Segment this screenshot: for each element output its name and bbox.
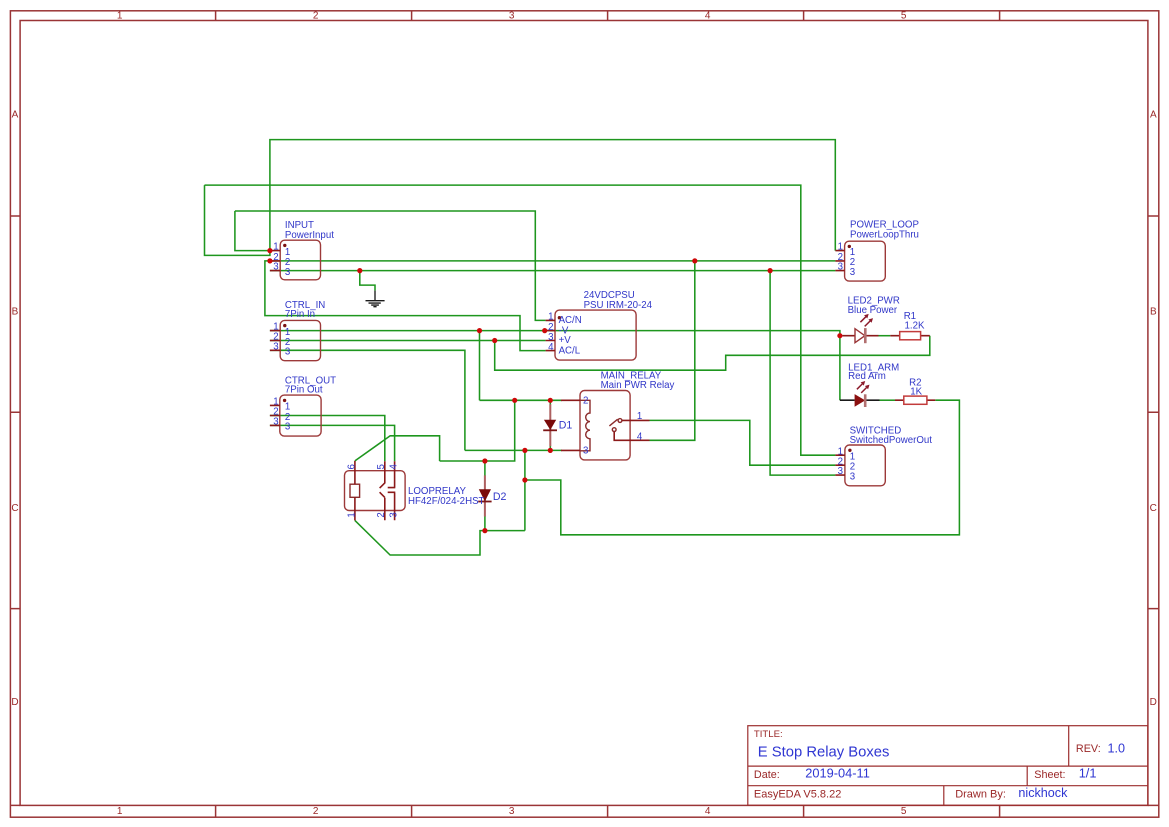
svg-text:5: 5 [901,11,907,22]
wire CTRL_IN pin3 down to MAIN_RELAY pin3 row [270,350,465,450]
svg-text:3: 3 [285,267,290,278]
pin 4 lead [614,432,649,441]
svg-text:1: 1 [117,11,123,22]
relay MAIN_RELAY (Main PWR Relay) [561,391,650,460]
svg-text:E Stop Relay Boxes: E Stop Relay Boxes [758,745,890,761]
svg-text:nickhock: nickhock [1018,786,1068,800]
junction relay pin3 row [522,448,527,453]
resistor R1 [890,332,930,340]
svg-text:7Pin Out: 7Pin Out [285,384,323,395]
svg-text:AC/L: AC/L [559,345,581,356]
LED2_PWR (Blue Power) [843,314,879,343]
wire D1 green stubs [549,400,551,450]
wire D2 top green segments [484,461,486,531]
diode D1 [543,404,557,446]
svg-text:D2: D2 [493,491,507,503]
connector POWER_LOOP (PowerLoopThru) [835,241,885,281]
svg-text:D: D [1150,697,1157,708]
svg-text:Blue Power: Blue Power [848,305,898,316]
svg-text:PowerLoopThru: PowerLoopThru [850,230,919,241]
wire ground tap [360,271,375,291]
wire MAIN_RELAY pin2 row [480,399,563,401]
LED1_ARM (Red Arm) [840,381,880,407]
wire D2 bottom row [485,530,525,532]
svg-text:3: 3 [838,466,843,477]
pin 1 stub / coil lead [354,497,356,520]
TITLEBLOCK [748,726,1148,806]
junction relay pin2 row at D2 net [512,398,517,403]
svg-text:SwitchedPowerOut: SwitchedPowerOut [850,435,933,446]
pin 1 lead [622,419,650,421]
power supply 24VDCPSU (PSU IRM-20-24) [546,310,637,360]
wire LED2 junction down to LED1 anode corner [839,336,841,401]
connector SWITCHED (SwitchedPowerOut) [835,445,885,486]
pin numbers LOOPRELAY (rotated) [346,464,399,518]
column labels bottom [117,806,907,817]
svg-text:1/1: 1/1 [1079,766,1097,781]
svg-text:Drawn By:: Drawn By: [955,789,1006,801]
junction D2 bottom [482,528,487,533]
wire INPUT pin1 left jog down [205,185,270,255]
pin 5 contact [380,461,385,488]
connector INPUT (PowerInput) [270,240,321,280]
svg-text:4: 4 [548,342,554,353]
wire POWER_LOOP pin2 net down to MAIN_RELAY pin4 [650,261,695,440]
connector CTRL_OUT (7Pin Out) [270,395,321,436]
wire R2 return loop to relay pin3 net [525,400,960,535]
svg-text:3: 3 [273,417,278,428]
junction relay pin2 net branch [477,328,482,333]
svg-text:C: C [1150,503,1157,514]
wire D2 top row to relay pin2 net [440,400,515,461]
pin numbers MAIN_RELAY [583,396,643,457]
svg-text:REV:: REV: [1076,743,1101,755]
svg-text:3: 3 [285,347,290,358]
svg-text:5: 5 [901,806,907,817]
wire CTRL_OUT pin3 to LOOPRELAY pin4 [270,425,395,461]
svg-text:6: 6 [346,464,357,469]
svg-text:3: 3 [850,267,855,278]
wire vertical relay pin3 to D2 row [524,450,526,530]
junction row2 drop [692,258,697,263]
svg-text:3: 3 [388,512,399,517]
pins 2,3 stubs [561,400,580,450]
svg-text:HF42F/024-2HST: HF42F/024-2HST [408,496,485,507]
column labels top [117,11,907,22]
pin numbers CTRL_OUT [273,397,278,428]
svg-text:4: 4 [388,464,399,470]
svg-text:2: 2 [313,806,319,817]
svg-text:1: 1 [117,806,123,817]
ruler ticks bottom [216,805,1000,817]
wire net AC/N top loop from INPUT pin1 to POWER_LOOP pin1 [270,140,835,251]
wire POWER_LOOP pin3 net down to SWITCHED pin3 [770,271,835,476]
svg-text:PowerInput: PowerInput [285,230,334,241]
svg-text:4: 4 [705,11,711,22]
svg-text:3: 3 [509,806,515,817]
junction R2 return tee [522,477,527,482]
wire LED2 cathode to R1 [879,335,891,337]
ground symbol [366,291,385,307]
junction INPUT pin1 [267,248,272,253]
svg-text:Red Arm: Red Arm [848,371,886,382]
COMPONENTS [270,240,935,520]
wire D2 bottom jog to LOOPRELAY pin1 [355,520,485,555]
junction LED2 anode [837,333,842,338]
ruler ticks top [216,11,1000,21]
junction +V branch [492,338,497,343]
wire INPUT pin1 branch left [235,211,270,251]
wire LED1 cathode to R2 [880,399,896,401]
wire branch down to MAIN_RELAY pin2 row [479,331,481,401]
wire row CTRL_IN pin2 to PSU +V [270,340,546,342]
svg-text:C: C [11,503,18,514]
relay LOOPRELAY (HF42F/024-2HST) [345,461,406,521]
title block outline [748,726,1148,806]
junction D1 top [548,398,553,403]
wire INPUT pin2 jog down to PSU AC/L [265,261,546,351]
svg-text:1: 1 [637,411,642,422]
svg-text:3: 3 [273,262,278,273]
pin numbers POWER_LOOP [838,242,843,273]
wire CTRL_OUT pin2 to LOOPRELAY pin5 [270,416,385,462]
junction INPUT pin2 [267,258,272,263]
svg-text:2019-04-11: 2019-04-11 [805,766,870,781]
switch contacts [618,419,622,423]
svg-text:Date:: Date: [754,769,780,781]
pin 2 contact [380,492,385,520]
wire MAIN_RELAY pin3 row [465,449,562,451]
junction D1 bottom [548,448,553,453]
title block column dividers [944,726,1069,806]
pin 3 contact [388,492,396,520]
ruler ticks left [10,216,20,805]
svg-text:A: A [1150,110,1157,121]
TEXTS [273,219,932,517]
svg-text:Sheet:: Sheet: [1034,769,1065,781]
svg-text:B: B [1150,306,1157,317]
svg-text:EasyEDA V5.8.22: EasyEDA V5.8.22 [754,789,841,801]
wire row INPUT pin2 to POWER_LOOP pin2 [270,260,836,262]
wire LOOPRELAY pin6 diagonal [355,436,440,461]
wire net from INPUT pin1 via left drop to SWITCHED pin1 [205,185,836,455]
pin names PSU [559,315,582,356]
coil rectangle [350,484,360,497]
resistor R2 [895,396,935,404]
svg-text:Main PWR Relay: Main PWR Relay [601,380,675,391]
svg-text:3: 3 [509,11,515,22]
row labels right [1150,110,1157,709]
pin numbers PSU [548,312,554,353]
junction ground tap [357,268,362,273]
pin numbers INPUT [273,242,278,273]
svg-text:1.0: 1.0 [1108,741,1126,755]
pin numbers CTRL_IN [273,322,278,353]
svg-text:1: 1 [346,512,357,517]
coil [580,400,590,451]
svg-text:D1: D1 [559,419,573,431]
svg-text:PSU IRM-20-24: PSU IRM-20-24 [584,300,653,311]
junction D2 top [482,458,487,463]
svg-text:A: A [12,110,19,121]
svg-text:2: 2 [313,11,319,22]
svg-text:B: B [12,306,19,317]
svg-text:4: 4 [705,806,711,817]
emission arrows [860,317,870,327]
pin 6 stub / coil lead [354,461,356,484]
svg-text:5: 5 [376,464,387,469]
svg-text:1.2K: 1.2K [905,320,925,331]
emission arrows [857,384,867,393]
svg-text:3: 3 [273,341,278,352]
svg-text:2: 2 [583,396,588,407]
svg-text:4: 4 [637,431,643,442]
row labels left [11,110,18,709]
svg-text:7Pin In: 7Pin In [285,309,315,320]
svg-text:1K: 1K [910,387,922,398]
svg-text:D: D [11,697,18,708]
wire INPUT pin1 to PSU AC/N [235,211,546,320]
wire row INPUT pin3 to POWER_LOOP pin3 [270,270,836,272]
svg-text:3: 3 [838,262,843,273]
svg-text:TITLE:: TITLE: [754,729,783,740]
JUNCTIONS [267,248,842,533]
wire MAIN_RELAY pin1 to SWITCHED pin2 [650,420,836,465]
wire row CTRL_IN pin1 to PSU -V and LED2 anode [270,331,840,336]
title block row dividers [748,766,1148,786]
ruler ticks right [1148,216,1159,805]
junction row3 drop [768,268,773,273]
svg-text:3: 3 [850,471,855,482]
pin 4 contact [388,461,396,487]
svg-text:3: 3 [285,422,290,433]
pin numbers SWITCHED [838,446,843,477]
svg-text:3: 3 [583,446,588,457]
svg-text:2: 2 [376,512,387,517]
connector CTRL_IN (7Pin In) [270,320,321,360]
junction PSU -V [542,328,547,333]
diode D2 [478,475,491,516]
wire +V net to resistor loop [495,336,930,371]
